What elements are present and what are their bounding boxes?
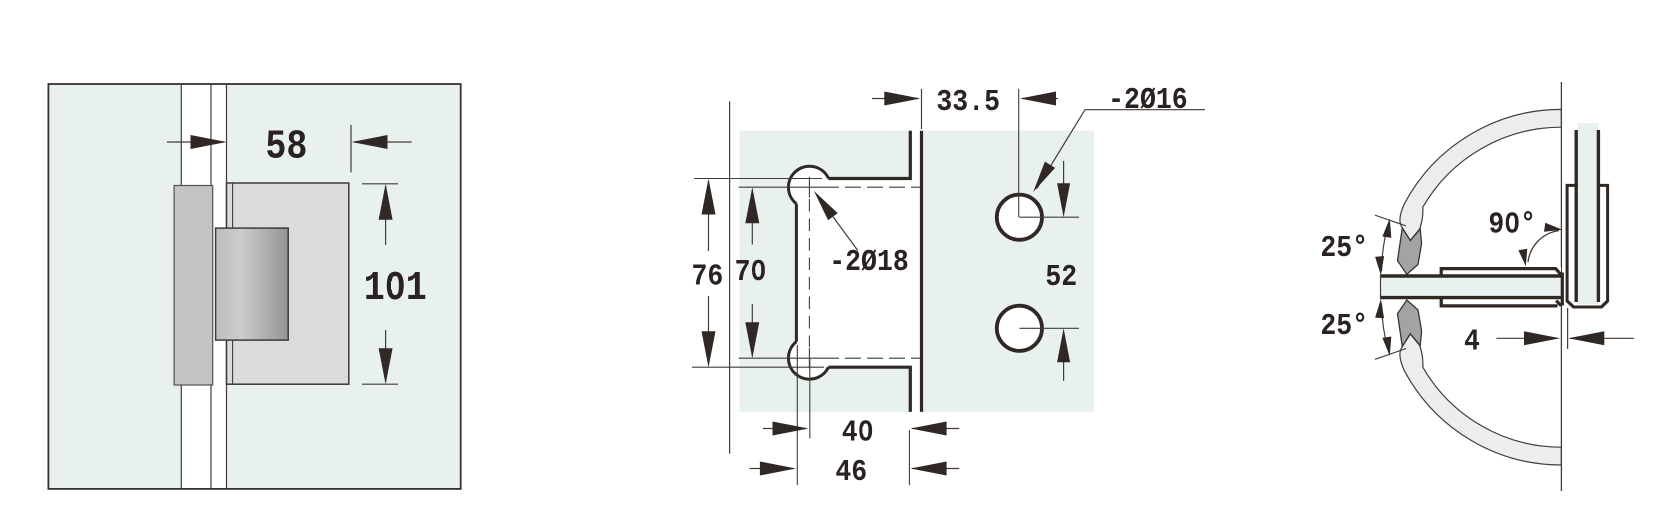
fixed glass edge line	[920, 131, 923, 412]
glass edge line left	[180, 84, 182, 489]
door glass right end cap	[1561, 273, 1564, 306]
lower knuckle arc interior	[789, 338, 830, 379]
angle 25 lower tick	[1375, 349, 1406, 360]
svg-text:70: 70	[735, 254, 767, 289]
dim 52 top arrow	[1057, 161, 1070, 217]
svg-text:76: 76	[692, 259, 724, 294]
upper knuckle arc interior	[789, 167, 830, 208]
glass plane line	[1560, 82, 1562, 491]
svg-text:25°: 25°	[1320, 230, 1368, 265]
dim 40 left ext line	[809, 358, 811, 438]
dim 33.5 right arrow	[1020, 92, 1058, 106]
dim 101 top ext line	[362, 183, 398, 185]
svg-text:52: 52	[1045, 259, 1077, 294]
dim 4 right ext line	[1567, 308, 1569, 349]
dim 70 top ext line	[739, 186, 798, 188]
dim 46 left ext line	[796, 345, 798, 485]
angle 90 arc	[1518, 223, 1562, 266]
dim 101 down arrow	[379, 330, 393, 384]
hinge front plate	[227, 183, 349, 384]
swing direction arrow upper	[1398, 228, 1422, 274]
angle 25 upper arc	[1375, 218, 1391, 275]
hinge knuckle	[216, 228, 289, 340]
wall mount plate	[1567, 185, 1608, 307]
dim 40 label	[842, 415, 874, 450]
dim 33.5 right ext line	[1018, 89, 1020, 217]
upper knuckle arc	[788, 166, 828, 203]
door swing band lower	[1400, 334, 1561, 465]
door glass bottom edge	[1381, 296, 1562, 299]
lower hidden center line	[823, 357, 921, 359]
dim 70 label	[735, 254, 767, 289]
screw hole lower	[997, 306, 1042, 351]
label -2dia18 leader	[814, 191, 858, 251]
dim 76 label	[692, 259, 724, 294]
dim 52 lower center line	[1019, 327, 1079, 329]
angle 25 upper tick	[1375, 215, 1406, 226]
door glass leaf	[1381, 278, 1562, 296]
door clamp top edge	[1441, 269, 1561, 276]
svg-text:-2Ø18: -2Ø18	[829, 245, 908, 280]
dim 58 left arrow	[167, 135, 227, 149]
svg-text:58: 58	[265, 124, 307, 170]
dim 70 bottom ext line	[739, 357, 798, 359]
dim 52 upper center line	[1019, 216, 1079, 218]
dim 33.5 left arrow	[872, 92, 920, 106]
dim 40 left arrow	[763, 422, 809, 436]
fixed glass right edge	[1597, 130, 1600, 302]
dim 52 label	[1045, 259, 1077, 294]
label -2dia18 text	[829, 245, 908, 280]
label -2dia16 leader	[1033, 110, 1205, 192]
dim 33.5 left ext line	[921, 89, 923, 129]
door clamp body	[1440, 267, 1561, 307]
lower knuckle arc	[788, 342, 828, 379]
dim 4 label	[1464, 324, 1480, 359]
hinge plate top edge	[828, 131, 910, 179]
svg-text:46: 46	[835, 454, 867, 489]
wall plate bottom edge	[1567, 301, 1608, 307]
dim 40 right arrow	[911, 422, 960, 436]
dim 40-46 right ext line	[908, 430, 910, 485]
dim 76 down arrow	[702, 296, 716, 367]
dim 76 top ext line	[694, 178, 822, 180]
hinge plate interior	[798, 180, 921, 367]
dim 101 label	[364, 266, 427, 312]
upper hidden center line	[823, 186, 921, 188]
label -2dia16 text	[1108, 82, 1187, 117]
svg-text:40: 40	[842, 415, 874, 450]
dim 33.5 label	[936, 85, 1000, 120]
dim 76 up arrow	[702, 179, 716, 252]
dim 58 label	[265, 124, 307, 170]
hinge back plate	[174, 186, 213, 386]
svg-text:4: 4	[1464, 324, 1480, 359]
glass slot	[912, 131, 920, 412]
dim 52 bottom arrow	[1057, 328, 1070, 381]
glass panel (front view)	[48, 84, 460, 489]
dim 46 right arrow	[911, 462, 960, 476]
dim 76 bottom ext line	[692, 366, 824, 368]
angle 25 lower arc	[1375, 299, 1391, 356]
door glass left end line	[1380, 274, 1382, 299]
door clamp bottom edge	[1441, 298, 1561, 306]
svg-text:25°: 25°	[1320, 309, 1368, 344]
dim 4 right arrow	[1568, 331, 1634, 345]
dim 58 right arrow	[352, 135, 412, 149]
upper hole center cross	[798, 177, 823, 198]
angle 25 lower label	[1320, 309, 1368, 344]
dim 58 right ext line	[350, 125, 352, 172]
projection line	[729, 101, 731, 453]
svg-text:33.5: 33.5	[936, 85, 1000, 120]
hinge plate bottom edge	[828, 367, 910, 412]
door glass top edge	[1381, 274, 1562, 277]
dim 46 label	[835, 454, 867, 489]
door swing band upper	[1400, 109, 1561, 240]
lower hole center cross	[798, 348, 823, 369]
fixed glass left edge	[1574, 130, 1577, 302]
hinge plate left edge	[795, 204, 798, 342]
dim 70 up arrow	[745, 187, 759, 244]
hinge plate inner edge line	[232, 183, 234, 384]
glass edge line right	[226, 84, 228, 489]
angle 90 label	[1488, 207, 1536, 242]
vertical hidden center line	[808, 199, 810, 347]
glass edge line mid	[210, 84, 212, 489]
glass door edge strip	[181, 85, 226, 488]
dim 70 down arrow	[745, 304, 759, 358]
dim 101 up arrow	[379, 184, 393, 245]
fixed glass panel	[1578, 123, 1599, 305]
angle 25 upper label	[1320, 230, 1368, 265]
glass panel (section view)	[740, 131, 1095, 412]
screw hole upper	[997, 195, 1042, 240]
swing direction arrow lower	[1398, 300, 1422, 346]
dim 101 bottom ext line	[362, 383, 398, 385]
dim 4 left arrow	[1496, 331, 1560, 345]
svg-text:-2Ø16: -2Ø16	[1108, 82, 1187, 117]
dim 46 left arrow	[750, 462, 796, 476]
